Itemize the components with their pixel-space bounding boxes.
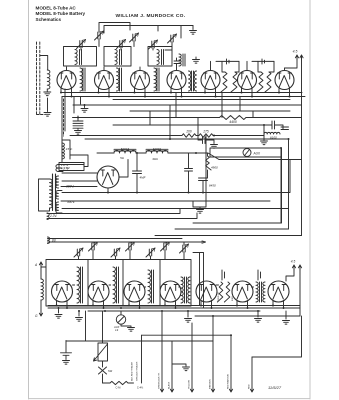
coil L5 bbox=[179, 54, 181, 66]
ground (6100) bbox=[263, 134, 265, 140]
tube leads row2 bbox=[57, 301, 284, 309]
svg-text:11/5/27: 11/5/27 bbox=[268, 385, 282, 390]
svg-text:2.3V.: 2.3V. bbox=[49, 214, 57, 218]
capacitor + ground (under 275) bbox=[198, 136, 214, 144]
ground (above T4) bbox=[195, 57, 197, 59]
coil L8 (T3-T4) bbox=[154, 68, 156, 91]
wire bus I bbox=[219, 159, 302, 161]
wire 4.5 feed row2 bbox=[286, 268, 300, 316]
variable capacitor C5 bbox=[152, 41, 154, 48]
variable capacitor C3 bbox=[120, 41, 122, 48]
wire filament bus A bbox=[62, 92, 302, 94]
wire bus H bbox=[85, 138, 289, 140]
wire bottom B+ bbox=[195, 315, 300, 317]
wire drop row2 left bbox=[85, 311, 87, 341]
svg-text:C-4½: C-4½ bbox=[137, 386, 144, 390]
header model list bbox=[36, 6, 86, 23]
variable capacitor C8 bbox=[114, 249, 116, 256]
capacitor 6450 bbox=[199, 178, 208, 193]
svg-text:4400: 4400 bbox=[229, 120, 237, 124]
label tracer 2 bbox=[136, 361, 139, 381]
coil L6 (T1-T2) bbox=[80, 68, 82, 91]
svg-text:G: G bbox=[35, 314, 38, 318]
winding 8V bbox=[48, 237, 50, 244]
terminal 4.5 bbox=[295, 55, 298, 60]
svg-text:LS: LS bbox=[115, 328, 118, 332]
variable capacitor C1 bbox=[80, 41, 82, 48]
ground (C bias) bbox=[63, 361, 70, 365]
lead BLACK with ground bbox=[172, 341, 186, 388]
svg-text:BLK-RED TRACER: BLK-RED TRACER bbox=[131, 362, 134, 381]
ground (shield) bbox=[47, 98, 49, 112]
svg-text:MODEL 8-Tube Battery: MODEL 8-Tube Battery bbox=[36, 11, 86, 16]
wire bus G with resistors 200 / 275 bbox=[70, 135, 182, 137]
wire top bus bbox=[99, 23, 193, 39]
coil L3 bbox=[115, 50, 117, 65]
svg-text:RED MAROON: RED MAROON bbox=[227, 374, 230, 389]
svg-text:Schematics: Schematics bbox=[36, 17, 62, 22]
svg-text:GREEN-BLK TR.: GREEN-BLK TR. bbox=[159, 372, 161, 389]
variable capacitor C12 bbox=[183, 245, 185, 252]
svg-text:8,0 0 3: 8,0 0 3 bbox=[121, 147, 129, 151]
terminal 4.5 (battery) bbox=[292, 265, 295, 270]
svg-text:C-M: C-M bbox=[116, 386, 121, 390]
ground (row2 d) bbox=[257, 311, 259, 317]
transformer secondary 1.5V bbox=[56, 165, 59, 172]
resistor 4900 bbox=[207, 153, 209, 156]
wire bus J bbox=[62, 160, 290, 193]
tube V3 bbox=[131, 71, 150, 90]
coil L10 bbox=[77, 267, 79, 303]
ground (speaker) bbox=[121, 324, 131, 327]
tube V13 bbox=[196, 281, 217, 302]
tube V11 bbox=[124, 281, 145, 302]
capacitor (C bias) bbox=[61, 341, 72, 360]
ground (B-) bbox=[193, 136, 206, 209]
svg-text:GRID LK: GRID LK bbox=[218, 292, 220, 301]
wire grid links row2 bbox=[73, 285, 254, 287]
shield box 1 bbox=[64, 47, 97, 67]
label tracer 1 bbox=[131, 362, 134, 381]
svg-text:A: A bbox=[34, 263, 37, 267]
variable capacitor C10 bbox=[149, 249, 151, 256]
title WILLIAM J. MURDOCK CO. bbox=[116, 13, 186, 19]
speaker LS bbox=[116, 315, 125, 324]
resistor R4 bbox=[257, 72, 263, 92]
transformer secondary 300V a bbox=[56, 176, 59, 188]
svg-text:3,0 6 0: 3,0 6 0 bbox=[153, 147, 161, 151]
svg-text:5H: 5H bbox=[120, 156, 125, 160]
capacitor (driver) bbox=[185, 153, 193, 193]
capacitor grid T4 bbox=[174, 58, 180, 65]
ground (row2 a) bbox=[58, 308, 60, 313]
variable capacitor C5b bbox=[171, 35, 173, 42]
capacitor 4MF bbox=[133, 153, 142, 193]
svg-text:4.5: 4.5 bbox=[291, 260, 296, 264]
tube V10 bbox=[88, 281, 109, 302]
wire C-4.5 lead bbox=[141, 335, 143, 383]
svg-text:GRN-BLK TRACER: GRN-BLK TRACER bbox=[136, 361, 139, 381]
lead RED bbox=[251, 357, 253, 388]
secondary taps bbox=[59, 163, 271, 214]
lead GREEN-BLK bbox=[161, 311, 163, 388]
coil L2 bbox=[75, 50, 77, 65]
svg-text:300V.: 300V. bbox=[66, 185, 74, 189]
resistor R6 bbox=[103, 382, 111, 384]
svg-text:4.5: 4.5 bbox=[293, 50, 298, 54]
shield boxes row bbox=[46, 260, 191, 307]
wire left feed bbox=[61, 97, 63, 163]
svg-text:300V.: 300V. bbox=[67, 200, 75, 204]
coil L11 bbox=[113, 267, 115, 303]
wire bus row2 C bbox=[88, 310, 260, 312]
tube V4 bbox=[167, 71, 186, 90]
variable capacitor C4 bbox=[133, 34, 135, 41]
svg-text:SW: SW bbox=[108, 369, 113, 373]
wire filament bus row2 B bbox=[48, 307, 300, 309]
tube V12 bbox=[160, 281, 181, 302]
speaker AUX box bbox=[210, 148, 281, 157]
svg-text:MAROON: MAROON bbox=[209, 379, 212, 389]
wire return L bbox=[193, 148, 282, 223]
choke 30H bbox=[136, 152, 146, 154]
svg-text:200: 200 bbox=[185, 130, 192, 134]
svg-text:6450: 6450 bbox=[209, 184, 216, 188]
terminal A bbox=[39, 262, 42, 267]
winding 2.3V bbox=[47, 213, 49, 220]
svg-text:RED: RED bbox=[249, 384, 251, 389]
lead RED MAROON bbox=[230, 335, 232, 388]
rectifier leads bbox=[59, 160, 128, 193]
wire bottom E bbox=[252, 316, 302, 357]
svg-text:4MF: 4MF bbox=[140, 176, 146, 180]
tube V1 bbox=[57, 71, 76, 90]
tube V2 bbox=[95, 71, 114, 90]
antenna coil L9 bbox=[41, 267, 46, 279]
resistor network R5 bbox=[217, 282, 222, 302]
shield line (dashed) bbox=[63, 99, 65, 136]
svg-text:8V.: 8V. bbox=[52, 239, 57, 243]
cap drops bbox=[79, 242, 185, 260]
resistor R5a bbox=[265, 72, 271, 92]
wire box to rectifier bbox=[70, 155, 88, 167]
wire cap drops bbox=[81, 39, 172, 50]
svg-text:AUX: AUX bbox=[253, 152, 261, 156]
ground (row2 e) bbox=[285, 311, 287, 319]
audio transformer T3 bbox=[256, 282, 258, 302]
variable capacitor C9 bbox=[129, 243, 131, 250]
shield box 2 bbox=[104, 47, 131, 67]
tube V6 bbox=[238, 71, 257, 90]
capacitor C blocking bbox=[264, 121, 283, 129]
tube leads to buses bbox=[61, 88, 290, 97]
wire grid leads bbox=[67, 61, 285, 70]
rectifier tube V8 bbox=[97, 166, 119, 188]
wire antenna to coil bbox=[40, 56, 48, 71]
wire filament bus row2 A bbox=[48, 305, 300, 307]
date bbox=[268, 385, 282, 390]
transformer primary bbox=[50, 179, 53, 208]
wire filament bus B bbox=[62, 96, 305, 98]
junction dots row1 bbox=[60, 92, 291, 194]
svg-text:BLACK: BLACK bbox=[168, 381, 171, 389]
wire return N bbox=[155, 235, 302, 237]
grid caps row2 bbox=[222, 270, 261, 280]
wire return M bbox=[175, 228, 289, 230]
choke 3H bbox=[97, 152, 114, 154]
transformer secondary c bbox=[56, 202, 59, 213]
junction dots row2 bbox=[56, 305, 285, 337]
shield box 3 bbox=[148, 47, 172, 67]
ground (antenna) bbox=[44, 92, 51, 96]
switch X bbox=[99, 361, 107, 383]
svg-text:30H: 30H bbox=[152, 157, 158, 161]
variable capacitor C6 bbox=[77, 249, 79, 256]
wire primary feed bbox=[39, 179, 50, 211]
ballast .15V bbox=[62, 140, 70, 159]
ground (top right) bbox=[192, 26, 194, 30]
variable capacitor C11 bbox=[164, 243, 166, 250]
ground (filter) bbox=[75, 131, 82, 135]
tube V15 bbox=[268, 281, 289, 302]
coil (6100) bbox=[263, 131, 265, 134]
wire bus F bbox=[113, 124, 264, 126]
transformer secondary 300V b bbox=[56, 191, 59, 199]
svg-text:YELLOW: YELLOW bbox=[189, 379, 191, 389]
svg-text:6100: 6100 bbox=[270, 136, 277, 140]
lead YELLOW bbox=[191, 323, 193, 388]
svg-text:275: 275 bbox=[202, 130, 209, 134]
coil L4 bbox=[157, 50, 159, 65]
wire bus C bbox=[73, 104, 302, 106]
tube V7 bbox=[275, 71, 294, 90]
ground (row2 c) bbox=[187, 311, 189, 317]
capacitor (right column) bbox=[281, 127, 289, 130]
antenna lead (dashed) bbox=[37, 42, 46, 115]
ground (row2 a2) bbox=[78, 311, 80, 316]
switch box bbox=[59, 163, 84, 171]
capacitor stack (filter) bbox=[73, 116, 83, 130]
ground (bus) bbox=[84, 105, 86, 108]
wire bus K bbox=[62, 208, 289, 210]
coil L7 (T2-T3) bbox=[117, 68, 119, 91]
speaker AUX bbox=[243, 149, 251, 157]
svg-text:1.5V.: 1.5V. bbox=[64, 166, 71, 170]
tube V5 bbox=[201, 71, 220, 90]
svg-text:.15 V.: .15 V. bbox=[65, 147, 73, 151]
antenna coil L1 bbox=[47, 70, 50, 89]
tube V14 bbox=[232, 281, 253, 302]
wire bus D bbox=[130, 110, 290, 112]
resistor R2 bbox=[221, 72, 227, 92]
tube V9 bbox=[52, 281, 73, 302]
variable capacitor C2 bbox=[98, 32, 100, 39]
wire drops right of boxes bbox=[193, 253, 204, 309]
wire bottom C bus bbox=[142, 334, 232, 336]
lead MAROON bbox=[212, 316, 214, 388]
wire plate links with grid caps bbox=[216, 59, 274, 64]
variable capacitor C7 bbox=[92, 243, 94, 250]
wire bus Bb bbox=[113, 99, 290, 101]
wire bus E with resistor 4400 bbox=[73, 117, 220, 119]
svg-text:MODEL 8-Tube AC: MODEL 8-Tube AC bbox=[36, 6, 77, 11]
wire bus bottom long bbox=[66, 340, 213, 342]
wire 4.5V feed bbox=[285, 57, 302, 236]
wire drops midband bbox=[65, 89, 289, 229]
rheostat bbox=[102, 311, 104, 343]
svg-text:4900: 4900 bbox=[211, 166, 218, 170]
audio transformer T2 bbox=[181, 277, 183, 303]
transformer T4-T5 bbox=[189, 71, 191, 91]
coil L12 bbox=[148, 270, 150, 303]
svg-text:WILLIAM J. MURDOCK CO.: WILLIAM J. MURDOCK CO. bbox=[116, 13, 186, 19]
transformer T1 core bbox=[53, 174, 56, 211]
terminal G bbox=[39, 311, 42, 316]
resistor R3 bbox=[231, 72, 237, 92]
